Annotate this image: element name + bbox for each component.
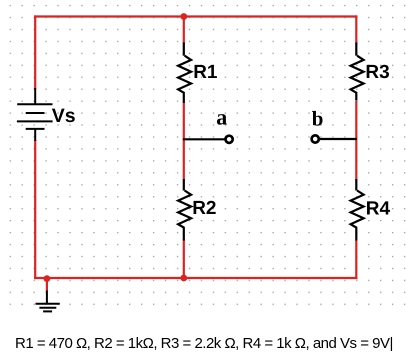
wire right vertical mid: [355, 101, 357, 180]
junction top middle: [180, 13, 187, 20]
svg-text:Vs: Vs: [52, 105, 76, 127]
svg-text:R1: R1: [193, 62, 218, 83]
svg-text:a: a: [216, 104, 227, 129]
resistor R4: [351, 179, 364, 241]
resistor R3: [351, 43, 364, 101]
wire right vertical bottom: [355, 241, 357, 280]
svg-text:R3: R3: [365, 62, 389, 83]
node b wire: [320, 138, 357, 140]
wire middle branch mid: [183, 103, 185, 180]
battery Vs: [17, 88, 53, 141]
resistor R1: [178, 43, 191, 104]
node b terminal: [312, 135, 319, 142]
svg-text:R4: R4: [366, 199, 391, 220]
wire left vertical lower: [34, 140, 36, 279]
wire middle branch bottom: [183, 240, 185, 278]
caption values: [15, 335, 393, 352]
wire left vertical upper: [34, 15, 36, 89]
node a wire: [183, 138, 225, 140]
wire right vertical top: [355, 15, 357, 43]
wire middle branch top: [183, 17, 185, 44]
junction bottom middle: [180, 275, 187, 282]
resistor R2: [178, 179, 191, 241]
wire bottom horizontal: [34, 277, 357, 279]
junction ground: [44, 275, 51, 282]
wire ground stub red: [46, 278, 48, 291]
svg-text:R2: R2: [192, 198, 216, 219]
wire top horizontal: [34, 15, 357, 17]
svg-text:b: b: [312, 107, 324, 131]
ground: [36, 291, 60, 312]
node a terminal: [226, 136, 233, 143]
